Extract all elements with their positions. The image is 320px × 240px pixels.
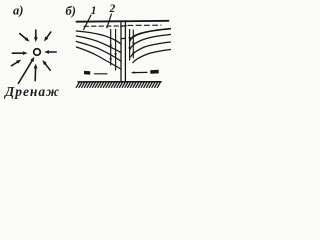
arrow top-right xyxy=(44,32,51,41)
leader of callout 2 xyxy=(107,14,112,28)
streamline right A xyxy=(128,30,131,61)
ground surface line xyxy=(77,20,169,23)
depression curve right 3 xyxy=(131,42,171,57)
water table dashed left xyxy=(84,25,119,27)
streamline left A xyxy=(109,30,112,66)
depression curve right 1 xyxy=(130,29,171,42)
drain wall right xyxy=(124,22,126,83)
impermeable base line xyxy=(78,81,161,83)
streamline right B xyxy=(132,30,134,58)
depression curve right 4 xyxy=(133,50,171,63)
arrow bottom-left xyxy=(11,60,21,66)
leader of callout 1 xyxy=(84,15,91,30)
svg-text:1: 1 xyxy=(91,5,97,17)
leader tail from circle xyxy=(18,57,34,84)
depression curve left 3 xyxy=(76,42,121,62)
svg-text:Дренаж: Дренаж xyxy=(3,84,59,99)
water level inside drain xyxy=(122,37,125,39)
depression curve left 1 xyxy=(76,31,121,44)
arrow top xyxy=(34,30,38,42)
drain symbol circle xyxy=(34,49,41,56)
bottom flow mark right blob xyxy=(150,70,158,74)
arrow left xyxy=(12,51,27,55)
arrow top-left xyxy=(20,34,30,42)
streamline left B xyxy=(114,30,117,71)
depression curve left 2 xyxy=(76,36,121,53)
bottom flow dash left xyxy=(95,73,108,75)
water table dash in drain xyxy=(121,25,127,27)
base hatching xyxy=(76,82,160,87)
bottom flow arrow right xyxy=(131,71,147,73)
bottom flow mark left blob xyxy=(84,71,90,75)
water table dashed right xyxy=(128,24,161,26)
svg-text:а): а) xyxy=(13,4,23,18)
arrow right xyxy=(44,50,56,54)
depression curve left 4 xyxy=(76,47,121,69)
svg-text:б): б) xyxy=(66,4,76,18)
arrow bottom xyxy=(34,64,38,81)
arrow bottom-right xyxy=(42,60,50,70)
depression curve right 2 xyxy=(130,35,171,50)
drain wall left xyxy=(120,22,122,83)
svg-text:2: 2 xyxy=(109,3,116,15)
